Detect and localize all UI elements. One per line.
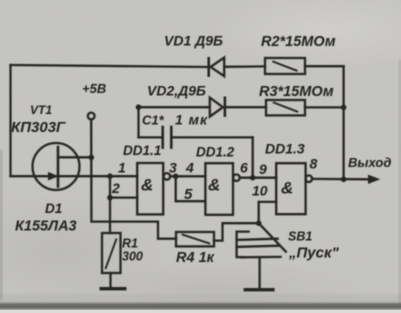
gate DD1.2 — [205, 163, 233, 215]
svg-text:VD2,Д9Б: VD2,Д9Б — [147, 83, 206, 99]
transistor VT1 channel bar — [57, 147, 60, 187]
wire VD2 corner drop — [137, 107, 139, 137]
wire +5V rail down and to R4 — [91, 120, 176, 239]
op bubble DD1.3 output — [306, 175, 313, 182]
svg-text:R1: R1 — [122, 237, 138, 251]
svg-text:+5В: +5В — [82, 81, 106, 96]
dark bottom band — [0, 303, 401, 309]
right photo edge smudge — [399, 60, 401, 306]
node VD2 corner — [136, 104, 142, 110]
wire R1 to ground — [109, 273, 111, 287]
wire right vertical rail — [342, 66, 344, 179]
switch SB1 — [259, 223, 286, 251]
wire pin10 L — [259, 202, 277, 223]
wire pin3 to pin4 — [170, 175, 205, 177]
svg-text:6: 6 — [240, 160, 248, 176]
wire C1 right — [172, 136, 253, 138]
gate DD1.3 — [276, 163, 305, 214]
wire pin2 — [110, 196, 137, 198]
wire drain tap — [58, 156, 91, 158]
svg-text:DD1.1: DD1.1 — [123, 143, 161, 158]
wire pin6 to pin9 — [240, 177, 277, 179]
svg-text:&: & — [141, 176, 153, 195]
svg-text:9: 9 — [259, 161, 267, 177]
svg-text:D1: D1 — [45, 201, 62, 216]
svg-text:КП303Г: КП303Г — [11, 119, 66, 136]
svg-text:R2*15МОм: R2*15МОм — [261, 34, 336, 50]
bottom shading above band — [0, 294, 401, 304]
svg-text:5: 5 — [184, 186, 193, 203]
node drain junction — [89, 155, 95, 161]
svg-text:R4 1к: R4 1к — [176, 250, 215, 266]
svg-text:&: & — [208, 176, 220, 195]
wire pin5 jog — [176, 176, 206, 201]
wire SB1 stem — [258, 257, 260, 288]
left photo edge smudge — [0, 150, 2, 300]
wire top loop (gate antenna line) — [11, 65, 210, 67]
wire C1 drop — [252, 137, 254, 177]
resistor R4 — [176, 232, 214, 246]
wire gate/source horizontal — [11, 175, 138, 177]
svg-text:2: 2 — [111, 180, 120, 196]
resistor R2 — [265, 58, 305, 74]
transistor VT1 — [33, 143, 80, 190]
wire C1 left — [139, 136, 163, 138]
node pin2 junction — [107, 195, 113, 201]
wire R4 right up to SB1 node — [214, 223, 259, 240]
svg-text:4: 4 — [185, 160, 194, 176]
wire VD1 right — [224, 65, 265, 68]
svg-text:10: 10 — [252, 183, 268, 199]
node pin4 junction — [173, 174, 179, 180]
node SB1 top junction — [256, 220, 262, 226]
output arrowhead — [369, 175, 379, 183]
wire output to arrow — [312, 178, 370, 181]
op bubble DD1.1 output — [164, 173, 171, 180]
node output junction — [341, 177, 347, 183]
svg-text:SB1: SB1 — [288, 230, 312, 244]
svg-text:DD1.2: DD1.2 — [196, 145, 235, 160]
node R3 rail junction — [341, 105, 347, 111]
op bubble DD1.2 output — [233, 174, 240, 181]
diode VD2 — [210, 98, 223, 117]
svg-text:C1*: C1* — [142, 113, 165, 128]
svg-text:300: 300 — [122, 250, 143, 264]
wire R2 to right rail — [305, 65, 344, 67]
ground under SB1 — [244, 288, 275, 291]
svg-text:R3*15МОм: R3*15МОм — [259, 84, 334, 100]
capacitor C1 plates — [161, 127, 164, 148]
wire junction drop pins 1-2 to R1 — [109, 176, 111, 233]
svg-text:VD1 Д9Б: VD1 Д9Б — [164, 33, 223, 49]
svg-text:&: & — [281, 179, 293, 198]
wire R3 to right rail — [305, 106, 344, 108]
svg-text:„Пуск": „Пуск" — [288, 245, 340, 262]
svg-text:3: 3 — [169, 160, 177, 176]
wire left frame — [9, 65, 11, 176]
svg-text:1: 1 — [118, 160, 126, 176]
svg-text:1 мк: 1 мк — [175, 112, 208, 128]
resistor R1 — [102, 233, 121, 273]
+5V terminal — [88, 113, 95, 120]
light strip below band — [0, 310, 401, 313]
diode VD1 — [211, 58, 225, 77]
ground under R1 — [100, 287, 127, 290]
node C1 junction — [250, 175, 256, 181]
svg-text:К155ЛА3: К155ЛА3 — [15, 219, 77, 235]
svg-text:8: 8 — [310, 156, 318, 172]
transistor VT1 gate arrow — [49, 173, 58, 180]
gate DD1.1 — [137, 163, 163, 214]
resistor R3 — [266, 100, 305, 115]
svg-text:DD1.3: DD1.3 — [265, 141, 305, 157]
wire VD2 row — [139, 106, 267, 108]
svg-text:Выход: Выход — [348, 155, 391, 170]
node pin1 junction — [107, 173, 113, 179]
svg-text:VT1: VT1 — [30, 103, 52, 117]
